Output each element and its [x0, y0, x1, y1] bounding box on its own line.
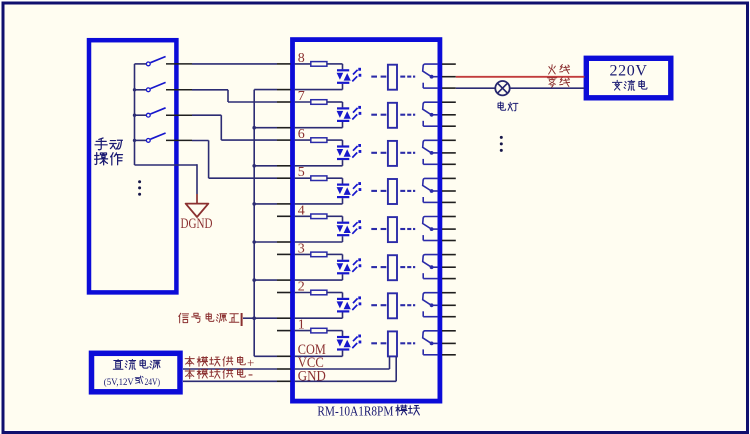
svg-text:8: 8 [298, 51, 305, 66]
svg-text:3: 3 [298, 241, 305, 256]
svg-text:220V: 220V [610, 63, 648, 80]
svg-text:(5V,12V: (5V,12V [104, 377, 134, 388]
svg-text:RM-10A1R8PM: RM-10A1R8PM [317, 404, 393, 419]
svg-text:2: 2 [298, 280, 305, 295]
svg-text:4: 4 [298, 203, 305, 218]
svg-text:7: 7 [298, 89, 305, 104]
svg-text:1: 1 [298, 318, 305, 333]
svg-text:DGND: DGND [181, 216, 213, 232]
svg-text:-: - [248, 366, 253, 382]
svg-text:5: 5 [298, 165, 305, 180]
svg-text:6: 6 [298, 127, 305, 142]
svg-text:24V): 24V) [145, 377, 161, 388]
